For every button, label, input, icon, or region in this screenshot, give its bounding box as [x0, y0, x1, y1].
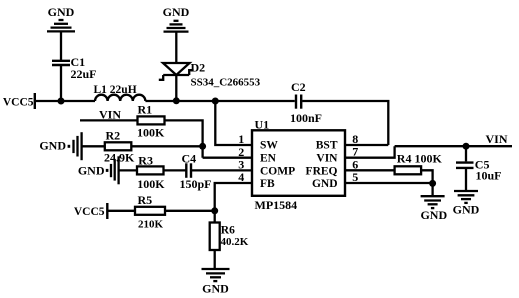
svg-text:U1: U1 — [255, 118, 270, 132]
svg-text:GND: GND — [39, 138, 66, 152]
wire R6 to GND5 — [214, 250, 216, 269]
svg-text:10uF: 10uF — [476, 169, 502, 183]
node junction C1/rail — [58, 98, 65, 105]
svg-text:D2: D2 — [191, 61, 206, 75]
ground port (row R3) — [78, 156, 119, 184]
wire R5 to FB junction — [165, 210, 215, 212]
wire C5 to GND4 — [465, 168, 467, 191]
wire R2 to junction — [131, 145, 202, 147]
svg-text:100K: 100K — [137, 125, 165, 139]
port VCC5 (left) — [3, 93, 35, 109]
wire C2 to BST corner — [302, 101, 388, 145]
wire R3 to C4 — [164, 169, 187, 171]
wire C5 stem top — [465, 146, 467, 161]
wire pin6 FREQ to R4 — [345, 169, 395, 171]
svg-text:GND: GND — [78, 163, 105, 177]
ground GND3 (below R4) — [420, 196, 447, 222]
node junction SW/rail — [212, 98, 219, 105]
inductor L1 — [94, 84, 146, 101]
svg-text:C2: C2 — [291, 80, 306, 94]
svg-text:SS34_C266553: SS34_C266553 — [191, 77, 261, 89]
capacitor C4 — [180, 151, 212, 191]
svg-text:150pF: 150pF — [180, 177, 212, 191]
capacitor C5 — [456, 158, 502, 183]
svg-text:MP1584: MP1584 — [255, 198, 298, 212]
svg-text:C4: C4 — [182, 151, 197, 165]
svg-text:GND: GND — [420, 208, 447, 222]
svg-text:R6: R6 — [221, 225, 235, 237]
svg-text:EN: EN — [260, 153, 277, 165]
svg-text:FREQ: FREQ — [306, 165, 338, 177]
svg-text:100K: 100K — [137, 177, 165, 191]
ground GND1 (top-left, above C1) — [47, 5, 75, 31]
svg-text:VIN: VIN — [486, 132, 508, 146]
wire pin4 FB — [215, 183, 252, 223]
wire C1 to rail — [60, 65, 62, 101]
svg-text:GND: GND — [163, 5, 190, 19]
capacitor C1 — [52, 55, 97, 81]
wire pin7 VIN to rail corner — [345, 146, 395, 158]
svg-text:8: 8 — [352, 132, 358, 146]
svg-text:100nF: 100nF — [290, 111, 322, 125]
wire pin3 COMP — [191, 169, 252, 171]
capacitor C2 — [290, 80, 322, 125]
node junction C5/VIN — [463, 143, 470, 150]
resistor R3 — [137, 153, 165, 191]
svg-text:40.2K: 40.2K — [221, 236, 249, 248]
svg-text:GND: GND — [48, 5, 75, 19]
wire L1 to C2 (main rail) — [145, 100, 294, 102]
svg-text:VCC5: VCC5 — [3, 96, 34, 108]
wire GND to R3 — [119, 169, 137, 171]
svg-text:22uF: 22uF — [71, 67, 97, 81]
wire GND1 to C1 — [60, 31, 62, 60]
port VCC5 (row R5) — [74, 203, 107, 219]
node junction FB/R5/R6 — [211, 207, 218, 214]
wire pin1 SW to rail — [215, 101, 252, 145]
svg-text:GND: GND — [453, 203, 480, 217]
ground port (row R2) — [39, 132, 81, 160]
op-amp U1 MP1584 box — [252, 118, 345, 212]
svg-text:R2: R2 — [106, 128, 121, 142]
node junction R4/pin5 — [429, 180, 436, 187]
node junction R1/R2 — [199, 143, 206, 150]
wire VIN rail (top right) — [395, 145, 512, 147]
svg-text:R5: R5 — [138, 193, 153, 207]
svg-text:GND: GND — [202, 281, 229, 295]
wire GND2 to D2 — [175, 32, 177, 63]
svg-text:GND: GND — [312, 178, 338, 190]
svg-text:R3: R3 — [138, 153, 153, 167]
svg-text:SW: SW — [260, 140, 278, 152]
wire VCC5 to R5 — [107, 210, 135, 212]
wire D2 to rail — [175, 75, 177, 101]
ground GND5 (below R6) — [202, 269, 230, 295]
svg-text:VIN: VIN — [316, 153, 338, 165]
svg-text:210K: 210K — [138, 218, 164, 230]
svg-text:BST: BST — [316, 140, 338, 152]
diode D2 (Schottky) — [159, 61, 261, 89]
svg-text:4: 4 — [238, 170, 244, 184]
wire R1 to EN node — [165, 120, 203, 157]
wire pin2 EN — [203, 157, 252, 159]
svg-text:R1: R1 — [138, 103, 153, 117]
svg-text:5: 5 — [352, 170, 358, 184]
svg-text:R4 100K: R4 100K — [397, 151, 443, 165]
node junction D2/rail — [173, 97, 180, 104]
svg-text:COMP: COMP — [260, 165, 295, 177]
svg-text:VCC5: VCC5 — [74, 206, 105, 218]
ground GND4 (below C5) — [453, 191, 480, 217]
wire VIN to R1 — [80, 119, 138, 121]
wire pin5 GND — [345, 182, 433, 184]
resistor R4 — [395, 151, 443, 174]
resistor R6 — [210, 223, 249, 251]
wire GND to R2 — [82, 145, 105, 147]
wire R4 to GND corner — [421, 170, 433, 196]
resistor R2 — [104, 128, 135, 164]
ground GND2 (above D2) — [163, 5, 190, 32]
resistor R5 — [135, 193, 165, 230]
wire VCC5 rail segment — [35, 100, 95, 102]
wire pin8 BST — [345, 144, 388, 146]
svg-text:FB: FB — [260, 178, 275, 190]
resistor R1 — [137, 103, 165, 140]
